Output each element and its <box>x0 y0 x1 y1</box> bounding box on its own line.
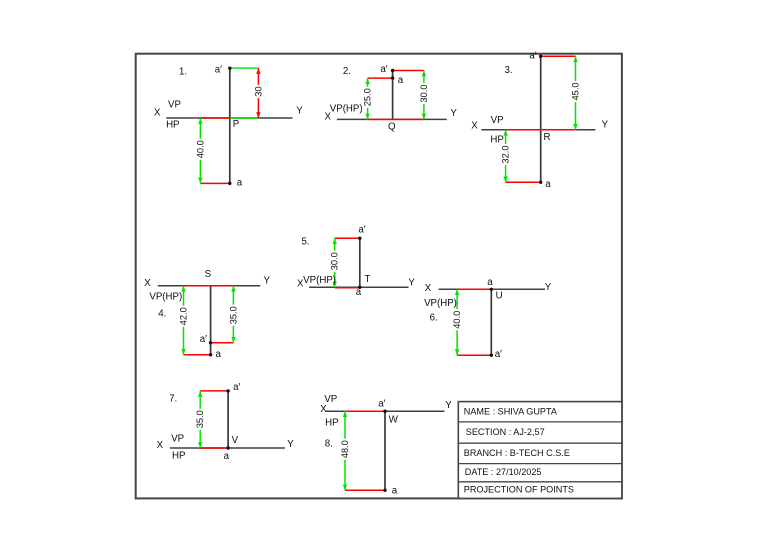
fig2 red extension a to dim 25 <box>368 77 393 79</box>
fig5 point a' dot <box>358 237 361 240</box>
svg-text:VP(HP): VP(HP) <box>424 298 457 309</box>
fig4 XY reference line <box>158 285 260 287</box>
fig3 red segment on XY <box>506 129 576 131</box>
fig7 dimension 35.0 (green) <box>195 391 205 448</box>
svg-text:a: a <box>237 178 243 189</box>
svg-text:U: U <box>496 291 503 302</box>
fig7 red segment on XY <box>200 447 228 449</box>
title block divider 3 <box>458 463 622 465</box>
fig5 red segment on XY <box>335 287 360 289</box>
svg-text:VP: VP <box>168 100 181 111</box>
svg-text:SECTION : AJ-2,57: SECTION : AJ-2,57 <box>466 427 545 437</box>
fig8 point a dot <box>383 489 386 492</box>
fig8 red extension a to dim 48 <box>345 489 385 491</box>
svg-text:HP: HP <box>325 417 338 428</box>
svg-text:40.0: 40.0 <box>195 140 205 158</box>
fig1 green segment on XY right of P <box>230 117 259 119</box>
svg-text:VP: VP <box>324 394 337 405</box>
fig8 red segment on XY <box>345 410 385 412</box>
fig6 point a' dot <box>490 354 493 357</box>
svg-text:45.0: 45.0 <box>571 82 581 100</box>
svg-text:1.: 1. <box>179 66 187 77</box>
fig4 red segment on XY <box>184 285 234 287</box>
fig3 point a dot <box>539 181 542 184</box>
fig4 projector line through S <box>210 286 212 355</box>
fig3 dimension 32.0 (green) <box>501 130 511 183</box>
svg-text:35.0: 35.0 <box>228 306 238 324</box>
fig5 point a dot <box>358 286 361 289</box>
svg-text:P: P <box>233 119 239 130</box>
svg-text:a′: a′ <box>215 64 222 75</box>
svg-text:Y: Y <box>450 108 457 119</box>
fig1 XY reference line <box>166 117 292 119</box>
fig7 point a dot <box>226 446 229 449</box>
svg-text:a′: a′ <box>495 349 502 360</box>
title block divider 1 <box>458 421 622 423</box>
svg-text:R: R <box>544 132 551 143</box>
fig2 red segment on XY <box>368 118 424 120</box>
fig2 projector line through Q <box>392 71 394 120</box>
fig7 red extension a' to dim 35 <box>200 390 228 392</box>
svg-text:Y: Y <box>296 106 303 117</box>
fig1 red segment on XY left of P <box>200 117 229 119</box>
svg-text:a′: a′ <box>380 64 387 75</box>
fig2 dimension 30.0 (green) <box>419 71 429 120</box>
svg-text:7.: 7. <box>169 393 177 404</box>
svg-text:Y: Y <box>287 439 294 450</box>
svg-text:35.0: 35.0 <box>195 410 205 428</box>
svg-text:4.: 4. <box>158 309 166 320</box>
fig7 projector line through V <box>227 391 229 448</box>
svg-text:a: a <box>545 179 551 190</box>
svg-text:X: X <box>471 121 478 132</box>
svg-text:a: a <box>224 451 230 462</box>
fig5 XY reference line <box>309 286 408 288</box>
svg-text:32.0: 32.0 <box>501 145 511 163</box>
fig6 red segment on XY <box>457 288 491 290</box>
svg-text:30: 30 <box>253 86 263 96</box>
svg-text:8.: 8. <box>325 438 333 449</box>
svg-text:Y: Y <box>602 119 609 130</box>
svg-text:VP(HP): VP(HP) <box>303 275 336 286</box>
svg-text:T: T <box>365 274 371 285</box>
svg-text:DATE : 27/10/2025: DATE : 27/10/2025 <box>465 467 542 477</box>
svg-text:NAME : SHIVA GUPTA: NAME : SHIVA GUPTA <box>464 406 558 416</box>
fig2 XY reference line <box>337 118 447 120</box>
title block divider 4 <box>458 481 622 483</box>
fig1 point a dot <box>228 182 231 185</box>
fig6 point a dot <box>490 288 493 291</box>
fig2 red extension a' to dim 30 <box>393 70 424 72</box>
fig3 red extension a to dim 32 <box>506 181 541 183</box>
svg-text:a′: a′ <box>378 399 385 410</box>
fig3 point a' dot <box>539 55 542 58</box>
svg-text:HP: HP <box>490 135 503 146</box>
fig4 dimension 42.0 (green) <box>179 286 189 355</box>
fig4 point a dot <box>209 353 212 356</box>
fig1 point a' dot <box>228 67 231 70</box>
svg-text:Q: Q <box>388 121 396 132</box>
title block outer box <box>458 402 622 499</box>
fig4 dimension 35.0 (green) <box>228 286 238 343</box>
svg-text:3.: 3. <box>504 65 512 76</box>
svg-text:X: X <box>144 278 151 289</box>
fig7 point a' dot <box>226 389 229 392</box>
svg-text:Y: Y <box>263 276 270 287</box>
fig5 dimension 30.0 (green) <box>330 238 340 287</box>
svg-text:a: a <box>398 75 404 86</box>
svg-text:PROJECTION OF POINTS: PROJECTION OF POINTS <box>464 485 574 495</box>
svg-text:VP(HP): VP(HP) <box>330 104 363 115</box>
fig8 point a' dot <box>383 410 386 413</box>
svg-text:V: V <box>232 435 239 446</box>
svg-text:X: X <box>157 440 164 451</box>
svg-text:X: X <box>425 283 432 294</box>
fig3 projector line through R <box>540 56 542 182</box>
svg-text:40.0: 40.0 <box>452 311 462 329</box>
fig5 projector line through T <box>359 238 361 288</box>
fig8 projector line through W <box>384 411 386 490</box>
svg-text:a: a <box>392 486 398 497</box>
svg-text:30.0: 30.0 <box>330 252 340 270</box>
svg-text:BRANCH : B-TECH C.S.E: BRANCH : B-TECH C.S.E <box>464 448 570 458</box>
svg-text:Y: Y <box>408 278 415 289</box>
svg-text:Y: Y <box>545 282 552 293</box>
svg-text:a′: a′ <box>233 382 240 393</box>
svg-text:HP: HP <box>166 120 179 131</box>
fig7 XY reference line <box>170 447 285 449</box>
svg-text:42.0: 42.0 <box>179 307 189 325</box>
svg-text:X: X <box>154 108 161 119</box>
fig3 dimension 45.0 (green) <box>571 56 581 130</box>
svg-text:48.0: 48.0 <box>340 440 350 458</box>
svg-text:VP: VP <box>491 115 504 126</box>
svg-text:HP: HP <box>172 450 185 461</box>
fig2 point a dot <box>391 76 394 79</box>
svg-text:a′: a′ <box>529 51 536 62</box>
svg-text:30.0: 30.0 <box>419 84 429 102</box>
svg-text:2.: 2. <box>343 66 351 77</box>
svg-text:S: S <box>205 269 212 280</box>
svg-text:a: a <box>216 349 222 360</box>
fig8 XY reference line <box>326 410 445 412</box>
svg-text:VP: VP <box>171 433 184 444</box>
fig1 projector line through P <box>229 68 231 183</box>
fig1 dimension 30 (red) <box>253 68 263 118</box>
svg-text:a′: a′ <box>358 225 365 236</box>
svg-text:W: W <box>389 414 399 425</box>
svg-text:a: a <box>356 287 362 298</box>
svg-text:25.0: 25.0 <box>363 88 373 106</box>
fig5 red extension a' to dim 30 <box>335 237 360 239</box>
svg-text:VP(HP): VP(HP) <box>149 292 182 303</box>
fig2 dimension 25.0 (green) <box>363 78 373 119</box>
fig1 red extension a to dim 40 <box>200 182 229 184</box>
svg-text:a: a <box>487 277 493 288</box>
fig6 XY reference line <box>439 288 545 290</box>
fig2 point a' dot <box>391 69 394 72</box>
svg-text:X: X <box>320 404 327 415</box>
svg-text:Y: Y <box>445 400 452 411</box>
fig1 green extension a' to dim 30 <box>230 67 259 69</box>
svg-text:a′: a′ <box>200 334 207 345</box>
fig1 dimension 40.0 (green) <box>195 118 205 183</box>
fig4 red extension a' to dim 35 <box>211 342 234 344</box>
fig4 red extension a to dim 42 <box>184 354 211 356</box>
fig3 red extension a' to dim 45 <box>541 55 576 57</box>
fig4 point a' dot <box>209 341 212 344</box>
fig6 dimension 40.0 (green) <box>452 289 462 355</box>
fig3 XY reference line <box>481 129 595 131</box>
svg-text:6.: 6. <box>430 313 438 324</box>
drawing sheet border frame <box>136 54 622 499</box>
title block divider 2 <box>458 442 622 444</box>
fig6 red extension a' to dim 40 <box>457 354 491 356</box>
fig6 projector line through U <box>490 289 492 355</box>
svg-text:5.: 5. <box>301 236 309 247</box>
fig8 dimension 48.0 (green) <box>340 411 350 490</box>
